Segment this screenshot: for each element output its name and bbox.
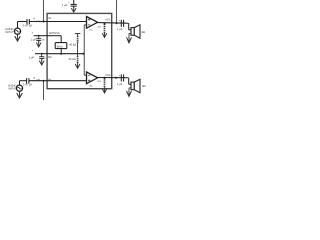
- svg-text:0.47 µF: 0.47 µF: [23, 82, 33, 86]
- svg-text:8Ω: 8Ω: [142, 31, 146, 34]
- svg-text:(IN): (IN): [36, 20, 40, 23]
- svg-text:V​O2: V​O2: [105, 74, 111, 77]
- svg-text:(B): (B): [89, 85, 92, 88]
- svg-text:INPUT: INPUT: [9, 88, 17, 91]
- svg-text:IN: IN: [48, 78, 51, 81]
- svg-text:1 µF: 1 µF: [117, 83, 123, 86]
- svg-text:0.47 µF: 0.47 µF: [23, 24, 33, 28]
- svg-text:(IN): (IN): [36, 78, 40, 81]
- svg-text:40 kΩ: 40 kΩ: [69, 43, 76, 46]
- svg-text:8Ω: 8Ω: [142, 85, 146, 88]
- svg-text:SD: SD: [48, 56, 52, 59]
- svg-text:BYPASS: BYPASS: [49, 32, 60, 35]
- svg-text:1 µF: 1 µF: [29, 57, 35, 60]
- svg-text:INPUT: INPUT: [6, 31, 14, 34]
- svg-text:IN: IN: [48, 17, 51, 20]
- svg-text:(A): (A): [89, 29, 92, 32]
- svg-text:V​O1: V​O1: [105, 18, 111, 21]
- svg-text:40 kΩ: 40 kΩ: [69, 58, 76, 61]
- svg-text:1 µF: 1 µF: [117, 28, 123, 31]
- svg-text:1 µF: 1 µF: [62, 4, 68, 7]
- svg-text:BIAS: BIAS: [57, 45, 63, 48]
- svg-text:1 µF: 1 µF: [31, 38, 37, 41]
